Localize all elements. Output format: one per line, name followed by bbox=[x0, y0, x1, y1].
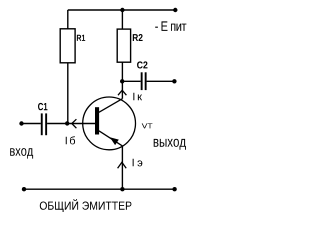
label R1 bbox=[77, 35, 85, 41]
wire emitter vertical bbox=[121, 146, 123, 189]
junction node top rail / R2 bbox=[120, 8, 124, 12]
wire C2 to output terminal bbox=[147, 80, 175, 82]
junction node emitter / ground bbox=[120, 187, 124, 191]
current arrow Iк bbox=[118, 90, 126, 95]
wire base lead to transistor bbox=[67, 123, 95, 125]
junction node collector bbox=[120, 79, 124, 83]
resistor R1 bbox=[60, 29, 75, 63]
wire collector node to C2 bbox=[122, 80, 141, 82]
capacitor C1 bbox=[41, 113, 47, 135]
terminal dot ground right bbox=[172, 187, 176, 191]
terminal dot output bbox=[172, 79, 176, 83]
wire R2 bottom to collector node bbox=[121, 62, 123, 81]
terminal dot ground left bbox=[22, 187, 26, 191]
capacitor C2 bbox=[141, 72, 147, 90]
label вход bbox=[10, 148, 33, 159]
wire collector vertical bbox=[121, 81, 123, 98]
label C2 bbox=[137, 61, 147, 68]
wire R1 bottom to base node bbox=[67, 63, 69, 124]
label C1 bbox=[38, 103, 47, 110]
wire R1 top to rail bbox=[67, 10, 69, 29]
wire R2 top to rail bbox=[121, 10, 123, 29]
label Iэ bbox=[133, 159, 143, 167]
current arrow Iэ bbox=[118, 162, 127, 168]
terminal dot input bbox=[19, 121, 23, 125]
terminal dot supply (-Е пит) bbox=[173, 8, 177, 12]
label VT bbox=[142, 123, 153, 128]
wire C1 to base node bbox=[47, 123, 67, 125]
label Iк bbox=[133, 93, 142, 101]
label Iб bbox=[66, 136, 75, 144]
label R2 bbox=[133, 34, 143, 41]
resistor R2 bbox=[117, 29, 130, 62]
label - Е пит bbox=[155, 21, 186, 31]
label выход bbox=[154, 139, 186, 150]
wire ground rail bbox=[24, 188, 175, 190]
label ОБЩИЙ ЭМИТТЕР bbox=[40, 199, 132, 212]
current arrow Iб bbox=[72, 119, 77, 128]
junction node base bbox=[65, 121, 69, 125]
wire input to C1 bbox=[22, 123, 41, 125]
transistor VT (PNP) bbox=[83, 97, 136, 150]
wire top supply rail bbox=[68, 9, 176, 11]
